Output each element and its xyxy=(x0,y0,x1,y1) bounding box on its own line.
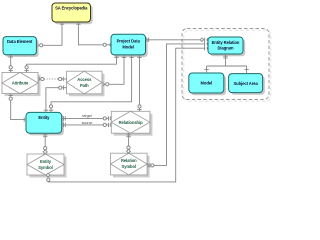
svg-text:Entity: Entity xyxy=(38,115,50,120)
diamond Relation Symbol xyxy=(111,153,150,177)
wire: Data Element right to SA Encyclopedia bottom-left xyxy=(37,22,64,47)
wire: Attribute bottom to Entity left xyxy=(9,94,27,122)
svg-text:Model: Model xyxy=(201,81,213,86)
wire: SA Encyclopedia bottom-right to Project Data Model left xyxy=(76,22,111,47)
svg-text:target: target xyxy=(82,114,91,118)
wire: PDM stem4 down into Relationship top xyxy=(137,55,141,111)
box Project Data Model xyxy=(111,34,148,57)
diamond Entity Symbol xyxy=(27,154,67,178)
svg-text:Relationship: Relationship xyxy=(119,120,143,125)
svg-text:Entity: Entity xyxy=(40,159,52,164)
svg-text:Symbol: Symbol xyxy=(38,165,52,170)
svg-text:Relation: Relation xyxy=(121,158,137,163)
wire: Access Path lower-left to Entity top stem1 xyxy=(44,86,67,113)
wire: Entity bottom to Entity Symbol top (diamond end) xyxy=(43,133,47,154)
svg-text:SA Encyclopedia: SA Encyclopedia xyxy=(55,6,88,11)
wire: Entity right target to Relationship left xyxy=(62,116,111,120)
wire: Data Element bottom into Attribute top-left xyxy=(9,55,13,73)
box Model xyxy=(189,73,226,95)
box SA Encyclopedia xyxy=(52,3,93,24)
diamond Access Path xyxy=(67,71,105,96)
svg-text:Project Data: Project Data xyxy=(117,39,141,44)
svg-text:Entity Relation: Entity Relation xyxy=(212,40,240,45)
svg-text:Data Element: Data Element xyxy=(7,39,33,44)
wire: PDM stem3 down-left-down into Entity top xyxy=(49,55,134,112)
svg-text:Subject Area: Subject Area xyxy=(233,81,258,86)
svg-text:Diagram: Diagram xyxy=(217,45,233,50)
box Entity Relation Diagram xyxy=(208,37,245,56)
wire: Entity right source to Relationship left xyxy=(62,123,111,127)
box Data Element xyxy=(3,37,39,57)
wire: ERD bottom tree to Model and Subject Area xyxy=(204,54,248,74)
svg-text:Model: Model xyxy=(122,44,134,49)
box Subject Area xyxy=(229,74,265,95)
wire: Attribute right dotted to Access Path left xyxy=(39,77,67,81)
wire: PDM stem1 down-left into Attribute top xyxy=(24,55,118,72)
svg-text:Access: Access xyxy=(77,77,92,82)
svg-text:Path: Path xyxy=(80,83,89,88)
wire: Project Data Model right to Entity Relation Diagram left (diamond end) xyxy=(146,38,208,42)
svg-text:Symbol: Symbol xyxy=(122,164,136,169)
box Entity xyxy=(26,112,64,135)
wire: Entity Symbol bottom loop to ERD left lower xyxy=(46,46,208,182)
wire: PDM stem2 down-left into Access Path right xyxy=(103,55,126,86)
dashed group box xyxy=(182,29,269,100)
svg-text:Attribute: Attribute xyxy=(12,81,29,86)
svg-text:source: source xyxy=(82,121,93,125)
diamond Relationship xyxy=(111,111,152,135)
wire: Relation Symbol right loop to ERD left middle xyxy=(148,42,208,168)
dashed group box shadow xyxy=(184,30,271,101)
diamond Attribute xyxy=(2,72,41,96)
wire: Relationship bottom to Relation Symbol top (diamond end) xyxy=(126,133,130,153)
